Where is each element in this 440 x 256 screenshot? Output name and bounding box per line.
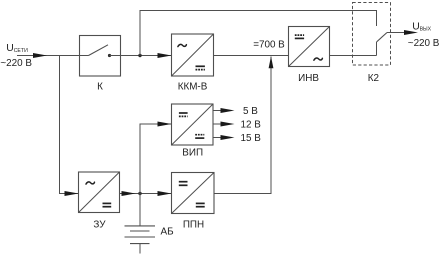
wire: riser to VIP [140, 124, 172, 194]
inverter INV box [289, 27, 330, 67]
svg-text:ИНВ: ИНВ [298, 73, 319, 84]
dc-dc converter PPN box [172, 173, 215, 214]
svg-text:=700 В: =700 В [253, 40, 285, 51]
svg-text:К: К [97, 81, 103, 92]
svg-text:12 В: 12 В [241, 119, 262, 130]
wire: battery drop [139, 194, 141, 226]
svg-text:АБ: АБ [161, 227, 174, 238]
wire: ZU to PPN [120, 193, 172, 195]
arrowhead into VIP [158, 122, 172, 127]
switch K2 lower stub [376, 42, 378, 56]
svg-text:СЕТИ: СЕТИ [14, 48, 28, 54]
svg-text:~220 В: ~220 В [408, 38, 440, 49]
wire: output [387, 32, 405, 34]
contactor K1 box [80, 36, 121, 77]
svg-text:ВЫХ: ВЫХ [420, 27, 432, 33]
wire: mains input [17, 55, 80, 57]
node Usupply label [0, 43, 32, 69]
wire: VIP output 5V [213, 110, 222, 112]
switch blade in K [80, 45, 121, 57]
svg-text:К2: К2 [368, 73, 379, 84]
junction node B [138, 192, 141, 195]
arrowhead into KKM-V [158, 53, 172, 58]
arrowhead 5V [221, 108, 235, 113]
wire: INV to K2 [330, 55, 377, 57]
aux supply VIP box [172, 104, 214, 145]
wire: VIP output 12V [213, 123, 222, 125]
wire: battery bottom stub [139, 244, 141, 254]
node Uout label [408, 22, 440, 49]
svg-text:ЗУ: ЗУ [93, 220, 106, 231]
wire: PPN output riser to DC bus [214, 57, 271, 194]
svg-text:ККМ-В: ККМ-В [178, 81, 208, 92]
svg-text:U: U [412, 22, 420, 33]
svg-text:U: U [6, 43, 14, 54]
switch K2 blade [377, 33, 388, 43]
wire: VIP output 15V [213, 137, 222, 139]
wire: KKM-V to INV (700V DC bus) [214, 55, 289, 57]
svg-text:~220 В: ~220 В [0, 58, 32, 69]
wire: K to KKM-V [121, 55, 172, 57]
battery AB plates [125, 226, 156, 244]
arrowhead into PPN [158, 191, 172, 196]
wire: branch down to ZU [60, 56, 79, 194]
svg-text:ВИП: ВИП [182, 148, 203, 159]
converter KKM-V box [172, 34, 214, 76]
svg-text:15 В: 15 В [241, 133, 262, 144]
svg-text:5 В: 5 В [243, 106, 258, 117]
arrowhead after ZU [122, 191, 136, 196]
arrowhead 12V [221, 122, 235, 127]
arrowhead output [404, 30, 418, 35]
svg-text:ППН: ППН [183, 219, 204, 230]
contactor K2 dashed box [353, 3, 391, 66]
arrowhead 15V [221, 135, 235, 140]
wire: bypass top line [140, 11, 377, 56]
charger ZU box [79, 172, 120, 213]
arrowhead up into DC bus [269, 56, 274, 68]
arrowhead into ZU [65, 191, 79, 196]
junction node A [138, 54, 141, 57]
arrowhead mains input [33, 53, 47, 58]
